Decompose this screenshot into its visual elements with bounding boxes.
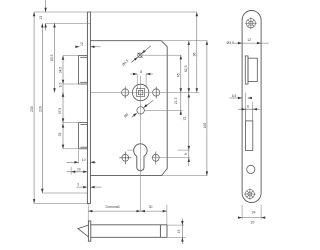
svg-text:Ø3,5: Ø3,5	[227, 41, 234, 45]
svg-text:9,5: 9,5	[58, 83, 62, 88]
cylinder fixing holes left and right	[119, 152, 159, 165]
svg-text:20: 20	[251, 220, 255, 224]
svg-text:8: 8	[140, 70, 142, 74]
svg-text:12: 12	[80, 42, 84, 46]
handle fixing holes beside follower	[122, 87, 160, 99]
svg-text:83.5: 83.5	[50, 54, 54, 61]
svg-text:24: 24	[252, 211, 256, 215]
svg-text:30: 30	[149, 205, 153, 209]
euro profile cylinder hole	[134, 144, 147, 171]
svg-text:72: 72	[183, 117, 187, 121]
dimension 12 faceplate to case front	[76, 46, 100, 48]
svg-text:34,5: 34,5	[58, 67, 62, 74]
dimension 96 faceplate top to follower axis	[196, 12, 198, 93]
dimension 24 / 20 faceplate width	[242, 205, 261, 220]
leader arrows for diameter 4.5 label	[132, 46, 151, 63]
screw hole diameter 4.5	[138, 53, 143, 58]
svg-text:165: 165	[203, 123, 207, 129]
extension lines of front view	[34, 12, 208, 203]
svg-text:45: 45	[177, 73, 181, 77]
deadbolt opening in faceplate	[246, 121, 253, 151]
svg-text:20: 20	[77, 168, 81, 172]
lock case slab (bottom view)	[91, 225, 167, 238]
svg-text:Ø4,5: Ø4,5	[121, 59, 129, 67]
dimension 10 deadbolt face to faceplate	[78, 150, 80, 164]
svg-text:96: 96	[193, 53, 197, 57]
svg-text:235: 235	[30, 106, 34, 112]
dimension 12 and diameter 3,5 row on faceplate	[234, 42, 269, 44]
svg-text:9: 9	[184, 153, 188, 155]
svg-text:Ø8: Ø8	[123, 112, 129, 118]
svg-text:Dornmaß: Dornmaß	[106, 205, 120, 209]
follower nut with 8mm square hole	[132, 84, 148, 100]
svg-text:33: 33	[58, 133, 62, 137]
dimension 15 case thickness	[167, 225, 186, 237]
dimension 8 follower square width	[130, 73, 153, 75]
vertical centerline through follower and cylinder	[140, 76, 142, 211]
svg-text:21.5: 21.5	[174, 97, 178, 104]
svg-text:209: 209	[38, 106, 42, 112]
dimension 45 screw hole to follower axis	[180, 55, 182, 115]
deadbolt (front view)	[79, 123, 88, 149]
lock case outline with chamfered right corners	[90, 41, 167, 176]
dimension 6,5 latch slot offset	[245, 93, 252, 121]
faceplate cross-section (bottom view)	[88, 221, 90, 241]
svg-text:10: 10	[82, 158, 86, 162]
leader arrows for diameter 8 label	[132, 100, 153, 117]
latch bolt (front view)	[78, 56, 87, 84]
dimension 62,5 case top to follower axis and 72 follower to cylinder and 9 to fixing holes	[188, 41, 190, 166]
svg-text:62,5: 62,5	[184, 65, 188, 72]
dimension Dornmass backset row with 30 to case back	[88, 205, 167, 225]
dimension 83.5 screw hole to follower axis	[54, 23, 56, 92]
dimension 3 faceplate thickness	[77, 186, 102, 188]
faceplate edge-on strip (front view)	[87, 12, 91, 204]
svg-text:6,5: 6,5	[232, 94, 237, 98]
svg-text:8: 8	[247, 104, 249, 108]
top countersunk screw hole	[245, 17, 257, 29]
svg-text:15: 15	[177, 230, 181, 234]
faceplate front view outline (right)	[242, 11, 261, 203]
svg-text:12: 12	[247, 38, 251, 42]
dimension 165 case height	[206, 41, 208, 176]
horizontal centerline through follower	[91, 92, 200, 94]
latch bolt wedge (bottom view)	[78, 225, 88, 237]
cylinder fixing holes axis line	[152, 157, 190, 159]
svg-text:13: 13	[39, 16, 43, 20]
hole diameter 8 below follower	[137, 107, 144, 114]
dimension 209 screw hole spacing	[41, 23, 43, 193]
cylinder centerline ticks	[127, 149, 190, 151]
latch opening in faceplate	[245, 56, 257, 84]
dimension 235 overall faceplate length	[33, 12, 35, 203]
svg-text:37.5: 37.5	[58, 108, 62, 115]
bottom countersunk screw hole	[244, 188, 256, 200]
dimension 8 deadbolt opening width	[246, 108, 253, 121]
svg-text:3: 3	[77, 183, 79, 187]
dimension chain 34,5 / 9,5 / 37.5 / 33 latch and deadbolt heights	[62, 56, 64, 149]
round hole in faceplate	[247, 165, 255, 173]
dimension 13 top edge to screw hole	[45, 0, 47, 31]
dimension 20 deadbolt throw	[70, 167, 72, 175]
